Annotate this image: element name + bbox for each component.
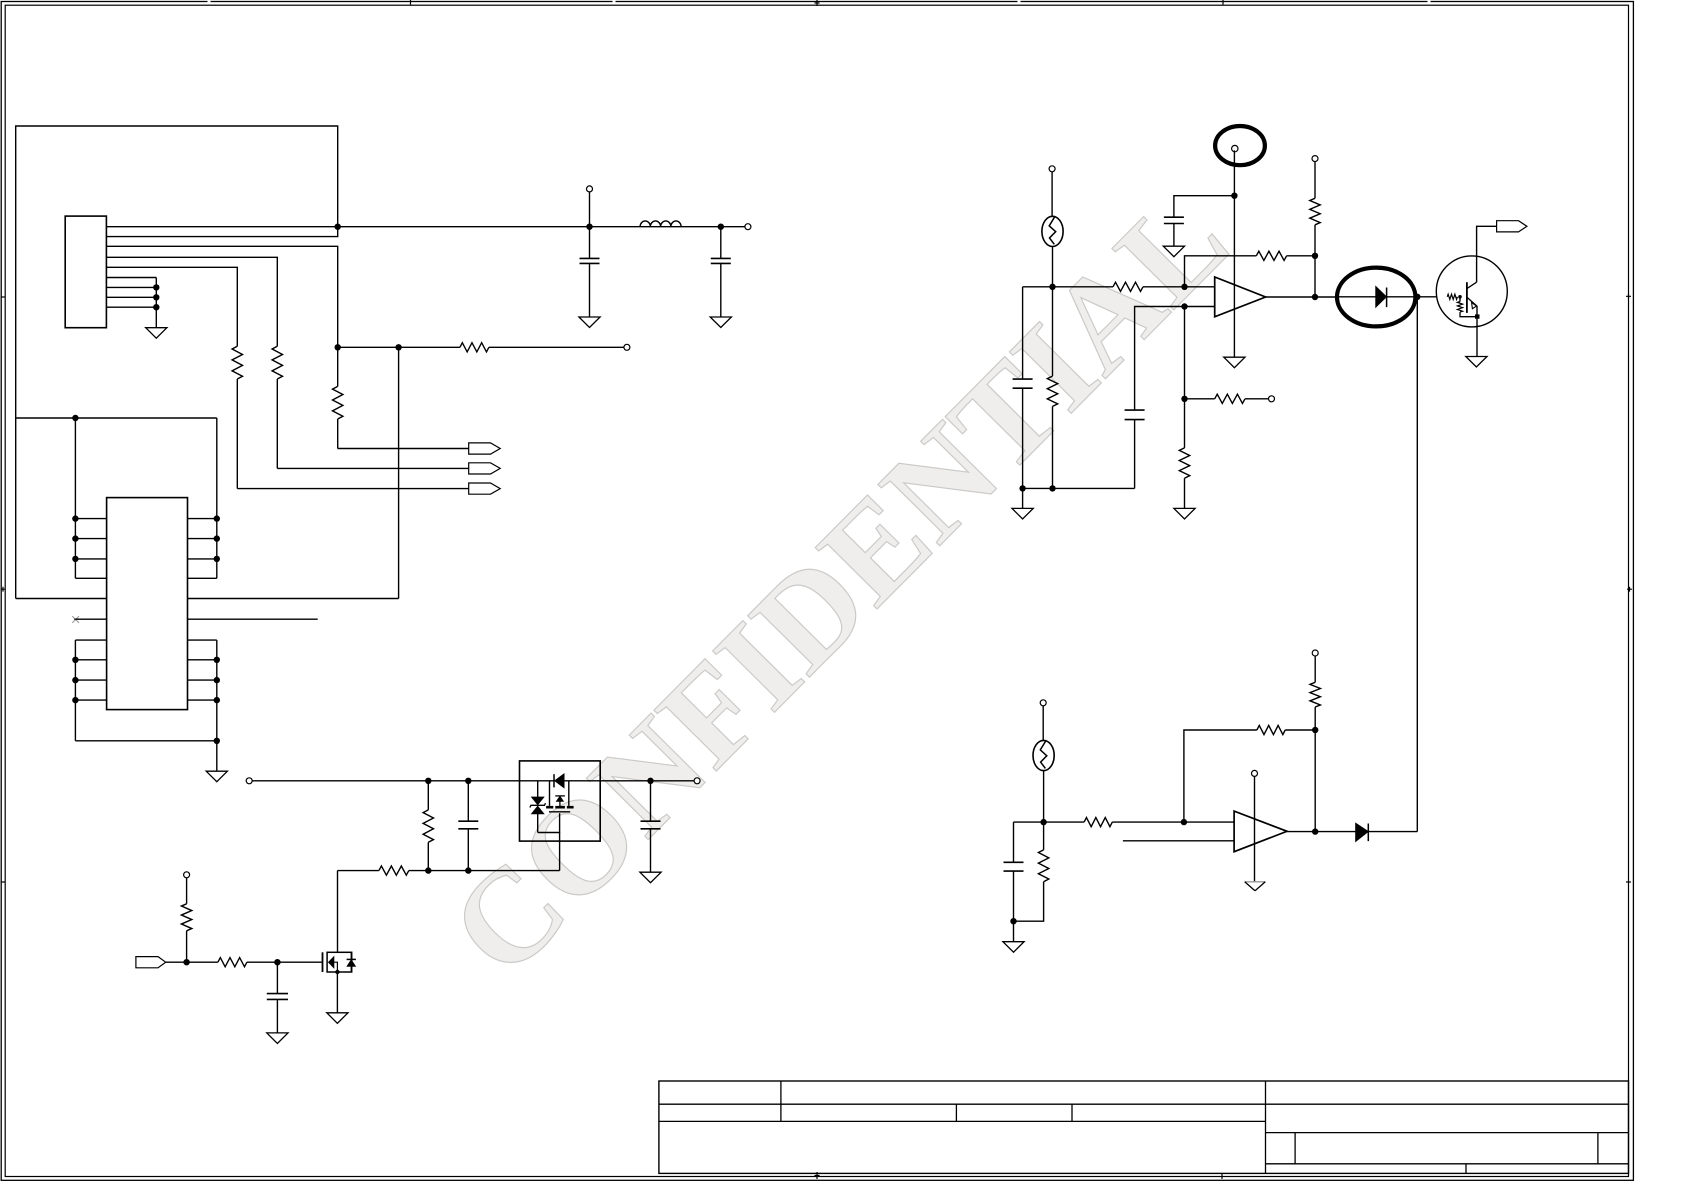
wire supply down	[1233, 150, 1235, 357]
wire U2 left pin b1	[75, 639, 106, 641]
ground C5	[267, 1033, 288, 1044]
node Q1 source	[335, 970, 339, 974]
title block row line 1	[659, 1103, 1629, 1105]
border center mark bottom	[815, 1172, 820, 1179]
node left bus dot3	[72, 556, 78, 562]
node left bus dot6	[72, 697, 78, 703]
wire net VIN row 780	[252, 780, 694, 782]
wire U2 left pin a3	[75, 558, 106, 560]
node VIN dot C4	[647, 778, 653, 784]
node left bus dot1	[72, 515, 78, 521]
wire vertical net to row 598	[398, 347, 400, 598]
resistor R4 vertical	[232, 346, 242, 379]
wire row 598 right segment	[188, 598, 399, 600]
transistor Q2 circle	[1436, 256, 1507, 327]
terminal P6	[184, 872, 190, 878]
wire in- down leg	[1184, 307, 1186, 399]
wire in+ row 286	[1023, 286, 1113, 288]
terminal P3	[624, 344, 630, 350]
wire feedback2 right	[1285, 729, 1315, 731]
title block bottom strip divider	[1465, 1164, 1467, 1174]
wire U1 pin5	[106, 267, 237, 346]
node left bus dot2	[72, 535, 78, 541]
resistor R20 pullup	[1314, 656, 1316, 683]
transistor Q2 body	[1466, 282, 1468, 313]
wire Q1 source to ground	[336, 972, 338, 1013]
ground row 488	[1022, 488, 1024, 508]
no-connect cross U2 pin	[72, 616, 79, 623]
wire bottom row 488	[1023, 487, 1135, 489]
wire U2 right pin b4	[188, 699, 217, 701]
wire U3 internal bottom	[538, 833, 560, 871]
wire Q2 collector	[1477, 226, 1497, 282]
capacitor C3	[467, 781, 469, 821]
node base junction	[1458, 295, 1462, 299]
node 921 junction	[1010, 918, 1016, 924]
node in+ junction	[1181, 284, 1187, 290]
node left bus dot4	[72, 657, 78, 663]
resistor R5 vertical	[427, 781, 429, 810]
capacitor C5	[276, 962, 278, 993]
node RT2 junction	[1040, 819, 1046, 825]
ground U2	[206, 771, 227, 782]
wire to arrow OUT1	[338, 448, 469, 450]
wire U2 left pin a4	[75, 577, 106, 579]
wire MOSFET drain	[337, 871, 339, 953]
title block outline	[659, 1081, 1629, 1173]
connector arrow OUT4	[1497, 221, 1527, 232]
thermistor RT1	[1042, 216, 1063, 246]
resistor R18 branch	[1043, 822, 1045, 850]
node gate dot C5	[274, 959, 280, 965]
node right bus dot4	[214, 657, 220, 663]
wire row 598 left segment	[16, 598, 107, 600]
node supply junction	[1231, 193, 1237, 199]
MOSFET Q1	[327, 952, 352, 972]
wire to terminal P3	[489, 346, 624, 348]
terminal P11	[1040, 700, 1046, 706]
node feedback2 junction	[1312, 727, 1318, 733]
wire Q2 emitter to ground	[1476, 306, 1478, 356]
resistor R3 series	[460, 343, 489, 352]
ground Q1	[327, 1013, 348, 1024]
node VIN dot R5	[425, 778, 431, 784]
node 870 dot C3	[465, 867, 471, 873]
wire box U2 top	[16, 417, 217, 419]
resistor R7 series	[218, 958, 247, 967]
node output junction B1	[1312, 828, 1318, 834]
wire box U1 outline loop	[16, 126, 338, 599]
node 488 dot B	[1049, 485, 1055, 491]
node right bus dot3	[214, 556, 220, 562]
wire gate net	[166, 961, 218, 963]
wire U2 right pin b1	[188, 639, 217, 641]
ground R12	[1174, 508, 1195, 519]
diode flag ellipse D3	[1337, 268, 1415, 327]
title block divider C	[1071, 1104, 1073, 1121]
wire U2 left pin b3	[75, 679, 106, 681]
wire net row 347	[338, 346, 460, 348]
terminal P1	[589, 192, 591, 227]
ground C4	[640, 872, 661, 883]
terminal P12	[1312, 650, 1318, 656]
wire thermistor2 top	[1042, 706, 1044, 741]
wire U2 left pin b2	[75, 659, 106, 661]
node bus junction 2	[153, 294, 159, 300]
node VIN dot C3	[465, 778, 471, 784]
ground U1	[146, 328, 167, 339]
node C1 junction	[586, 224, 592, 230]
wire in+2 row 822 b	[1112, 821, 1234, 823]
ground C1	[579, 317, 600, 328]
node gate dot R8	[183, 959, 189, 965]
terminal P7	[1049, 166, 1055, 172]
terminal P8	[1269, 396, 1275, 402]
resistor R2 vertical	[272, 346, 282, 379]
connector arrow IN1	[136, 957, 166, 968]
node emitter junction	[1475, 314, 1480, 318]
wire supply2 down	[1254, 776, 1256, 882]
terminal P9	[1312, 156, 1318, 162]
title block divider B	[955, 1104, 957, 1121]
wire gate net 2	[247, 961, 323, 963]
ground U5 supply gray	[1245, 881, 1266, 883]
diode D3	[1376, 287, 1386, 307]
wire feedback2 up leg	[1184, 730, 1257, 822]
terminal P5	[694, 778, 700, 784]
node bottom bus junction	[214, 738, 220, 744]
node feedback junction	[1312, 253, 1318, 259]
wire U2 ground stem	[216, 741, 218, 771]
wire U2 left pin a2	[75, 538, 106, 540]
ground Q2	[1466, 357, 1487, 368]
wire U1 pin4	[106, 257, 277, 346]
border zone ticks top	[410, 0, 412, 5]
resistor R9 series	[1113, 282, 1143, 291]
wire U2 right pin a4	[188, 577, 217, 579]
wire U1 pin1 net VOUT	[106, 226, 748, 228]
wire to arrow OUT2	[277, 467, 468, 469]
wire thermistor top	[1051, 172, 1053, 217]
wire D3 to Q2	[1387, 296, 1437, 298]
wire U1 pin2	[106, 227, 337, 237]
title block right cell divider E	[1597, 1133, 1599, 1164]
resistor R11 series	[1215, 394, 1245, 403]
title block divider A	[780, 1081, 782, 1121]
resistor R12 to ground	[1184, 399, 1186, 448]
connector arrow OUT3	[469, 483, 501, 494]
TVS diode D1 in U3	[537, 781, 539, 797]
watermark CONFIDENTIAL	[422, 165, 1256, 1004]
wire U1 ground bus	[155, 278, 157, 328]
node 398 junction	[1181, 396, 1187, 402]
wire U2 right pin a1	[188, 518, 217, 520]
border ticks right	[1626, 294, 1631, 299]
wire U2 left pin a1	[75, 518, 106, 520]
resistor R15 base	[1447, 294, 1457, 299]
wire thermistor2 bottom	[1043, 770, 1045, 822]
node 347 junction A	[335, 344, 341, 350]
terminal P10 inside flag	[1232, 145, 1238, 151]
wire nc left stub	[74, 618, 106, 620]
node 347 junction B	[395, 344, 401, 350]
IC U2	[107, 498, 188, 710]
resistor R8 pull	[186, 931, 188, 962]
wire in+ row 286 b	[1143, 286, 1215, 288]
power flag ellipse	[1215, 126, 1265, 165]
wire U2 right pin a2	[188, 538, 217, 540]
ground U4 supply	[1224, 357, 1245, 368]
wire U1 pin7	[106, 286, 156, 288]
wire U2 right pin b2	[188, 659, 217, 661]
connector arrow OUT2	[469, 463, 501, 474]
resistor R13 feedback	[1256, 251, 1286, 260]
title block row line 2 left	[659, 1120, 1266, 1122]
resistor R16 shunt	[1459, 297, 1461, 302]
capacitor C8 bypass	[1164, 216, 1184, 218]
node RT1 junction	[1049, 284, 1055, 290]
IC U1	[65, 216, 106, 328]
wire U2 right bus lower	[216, 640, 218, 741]
capacitor C2	[720, 227, 722, 259]
wire U5 output	[1287, 831, 1356, 833]
wire U4 output	[1266, 296, 1336, 298]
connector arrow OUT1	[469, 443, 501, 454]
diode D2 in U3	[555, 774, 564, 787]
border tick bottom right	[1221, 1173, 1223, 1179]
wire in+2 row 822	[1014, 821, 1085, 823]
border center mark top	[815, 0, 820, 6]
op-amp U5	[1234, 811, 1287, 852]
wire through D3	[1335, 296, 1376, 298]
wire thermistor bottom	[1052, 246, 1054, 286]
inductor L1	[640, 221, 681, 227]
title block right row line 2	[1266, 1132, 1629, 1134]
node U2 top junction	[72, 415, 78, 421]
wire U2 right pin a3	[188, 558, 217, 560]
ground C2	[710, 317, 731, 328]
capacitor C1	[589, 227, 591, 259]
wire nc right stub	[188, 618, 318, 620]
wire U2 bottom bus	[75, 740, 216, 742]
resistor R14 pullup	[1314, 161, 1316, 198]
node pin1 junction	[335, 224, 341, 230]
resistor R19 feedback	[1257, 725, 1285, 734]
node D3 out junction	[1414, 294, 1420, 300]
wire U2 left pin b4	[75, 699, 106, 701]
wire D4 to or-net	[1368, 831, 1417, 833]
node right bus dot5	[214, 677, 220, 683]
load switch U3 outline	[520, 761, 601, 841]
wire U2 right pin b3	[188, 679, 217, 681]
capacitor C6 branch	[1022, 287, 1024, 379]
node left bus dot5	[72, 677, 78, 683]
node 870 dot R5	[425, 867, 431, 873]
terminal P13 supply	[1252, 770, 1258, 776]
op-amp U4	[1215, 277, 1266, 317]
node right bus dot1	[214, 515, 220, 521]
capacitor C4	[650, 781, 652, 821]
wire in-2 stub	[1123, 840, 1234, 842]
resistor R1 vertical	[337, 347, 339, 386]
title block right section edge	[1265, 1081, 1267, 1173]
node output junction A1	[1312, 294, 1318, 300]
wire feedback up leg	[1185, 256, 1257, 287]
wire feedback right	[1287, 255, 1315, 257]
wire or-net vertical	[1416, 297, 1418, 832]
wire R11 leads	[1185, 398, 1215, 400]
terminal P4	[246, 778, 252, 784]
wire U2 right bus upper	[216, 418, 218, 578]
title block right row line 3	[1266, 1163, 1629, 1165]
ground C8	[1163, 246, 1184, 257]
node right bus dot2	[214, 535, 220, 541]
wire to arrow OUT3	[237, 488, 468, 490]
capacitor C7 branch	[1134, 420, 1136, 489]
wire bypass branch	[1174, 196, 1235, 218]
node C2 junction	[718, 224, 724, 230]
resistor R17 series	[1084, 818, 1112, 827]
border mid tick left	[1, 587, 6, 592]
ground row 921	[1013, 921, 1015, 942]
diode D4	[1356, 824, 1368, 842]
resistor R10 branch	[1052, 287, 1054, 376]
wire U2 left bus lower	[74, 640, 76, 741]
FET glyph in U3	[549, 781, 551, 806]
resistor R6 series	[338, 870, 379, 872]
node right bus dot6	[214, 697, 220, 703]
wire U1 pin9	[106, 306, 156, 308]
wire U2 left bus upper	[74, 418, 76, 578]
terminal P2	[745, 224, 751, 230]
node bus junction 3	[153, 304, 159, 310]
node bus junction 1	[153, 284, 159, 290]
capacitor C9 branch	[1013, 822, 1015, 862]
wire row 870	[409, 870, 560, 872]
wire U1 pin6	[106, 277, 156, 279]
node in- junction	[1181, 303, 1187, 309]
title block right cell divider D	[1294, 1133, 1296, 1164]
wire U1 pin8	[106, 296, 156, 298]
node 488 dot A	[1019, 485, 1025, 491]
node in+2 junction	[1181, 819, 1187, 825]
thermistor RT2	[1033, 740, 1054, 770]
wire U1 pin3	[106, 246, 337, 347]
